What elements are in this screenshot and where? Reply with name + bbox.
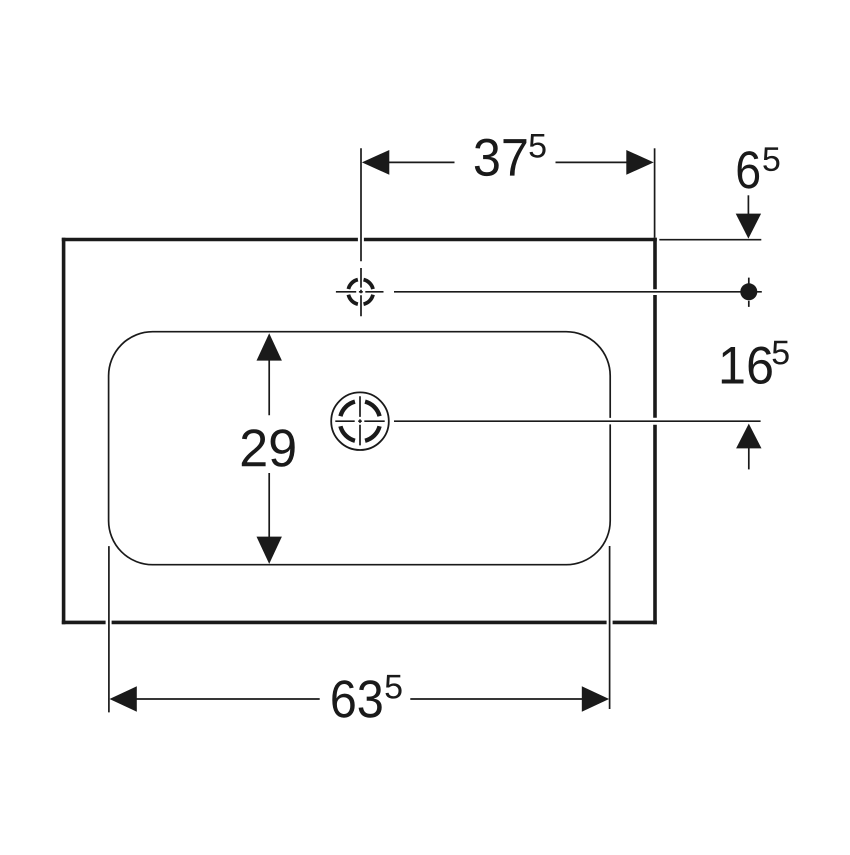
top edge extension line for 6.5 — [659, 239, 761, 241]
dim 37.5 right extension line — [654, 148, 656, 237]
dim 37.5 dimension line — [389, 161, 627, 163]
dimension label 16 — [722, 347, 772, 385]
faucet hole ring arcs — [348, 280, 373, 305]
dim 63.5 dimension line — [136, 698, 584, 700]
outer washbasin rectangle top edge — [62, 238, 657, 242]
drain ring arcs — [340, 402, 379, 441]
faucet centerline vertical (also 37.5 left extension) — [360, 148, 362, 316]
dim 63.5 right extension line — [609, 546, 611, 709]
dimension label 16 superscript 5 — [773, 341, 789, 365]
drain leader line to right — [394, 420, 761, 422]
faucet leader line to right — [394, 291, 762, 293]
dim 29 up arrowhead — [257, 333, 282, 360]
dim 63.5 left arrowhead — [110, 686, 137, 711]
dim 29 down arrowhead — [257, 537, 282, 564]
dimension label 37 — [475, 139, 527, 177]
dimension label 29 — [242, 429, 295, 467]
dimension label 6 superscript 5 — [763, 147, 779, 171]
dim 6.5 down arrowhead — [736, 214, 761, 239]
dimension label 63 superscript 5 — [386, 675, 402, 699]
faucet centerline horizontal — [336, 291, 384, 293]
dim 63.5 right arrowhead — [582, 686, 609, 711]
outer washbasin rectangle left edge — [62, 238, 66, 625]
dim 37.5 left arrowhead — [362, 150, 389, 175]
dimension label 6 — [738, 151, 760, 189]
dimension label 37 superscript 5 — [530, 134, 546, 158]
outer washbasin rectangle right edge — [653, 238, 657, 625]
dim 6.5 reference dot — [740, 283, 757, 300]
dim 16.5 arrow tail — [748, 448, 750, 469]
inner basin rounded outline — [109, 332, 611, 565]
dim 29 dimension line — [268, 360, 270, 537]
outer washbasin rectangle bottom edge — [62, 621, 657, 625]
drain centerline vertical — [359, 396, 361, 445]
dim 16.5 dot tick marks — [748, 278, 750, 307]
dim 63.5 left extension line — [108, 546, 110, 712]
dim 16.5 up arrowhead — [736, 424, 761, 449]
dim 37.5 right arrowhead — [626, 150, 653, 175]
dim 6.5 arrow tail — [747, 195, 749, 216]
drain outer circle — [331, 392, 389, 450]
dimension label 63 — [332, 680, 381, 718]
drain centerline horizontal — [335, 420, 384, 422]
